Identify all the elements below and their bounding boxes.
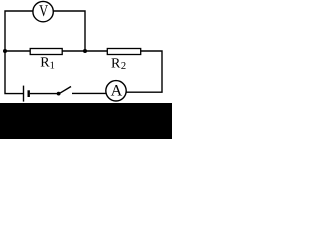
- svg-text:R: R: [111, 57, 121, 72]
- svg-text:A: A: [111, 83, 123, 100]
- node B (junction dot between R1 and R2): [83, 49, 87, 53]
- voltmeter U1: [33, 1, 53, 22]
- label R1: [40, 56, 55, 72]
- wire: middle line left of R1: [5, 50, 31, 52]
- wire: switch to ammeter: [72, 92, 106, 94]
- ammeter U2: [106, 81, 126, 101]
- svg-text:V: V: [39, 1, 48, 20]
- wire: top-left corner, left rail and bottom-left segment to battery: [5, 11, 33, 94]
- black censor bar at bottom: [0, 103, 172, 139]
- wire: middle line between R1 and R2: [62, 50, 107, 52]
- switch S pivot dot: [57, 92, 61, 96]
- battery cell: long plate (+): [23, 86, 25, 102]
- resistor R1: [30, 49, 62, 55]
- node A (junction dot left): [3, 49, 7, 53]
- svg-text:2: 2: [121, 61, 126, 72]
- wire: top wire from voltmeter to right corner down to node B: [54, 11, 85, 51]
- label R2: [111, 57, 126, 72]
- battery cell: short plate (-): [28, 90, 30, 97]
- switch S blade: [59, 87, 71, 94]
- resistor R2: [107, 49, 140, 55]
- wire: battery to switch pivot: [30, 93, 59, 95]
- svg-text:1: 1: [50, 60, 55, 71]
- wire: middle line right of R2, right rail down to ammeter: [126, 51, 162, 92]
